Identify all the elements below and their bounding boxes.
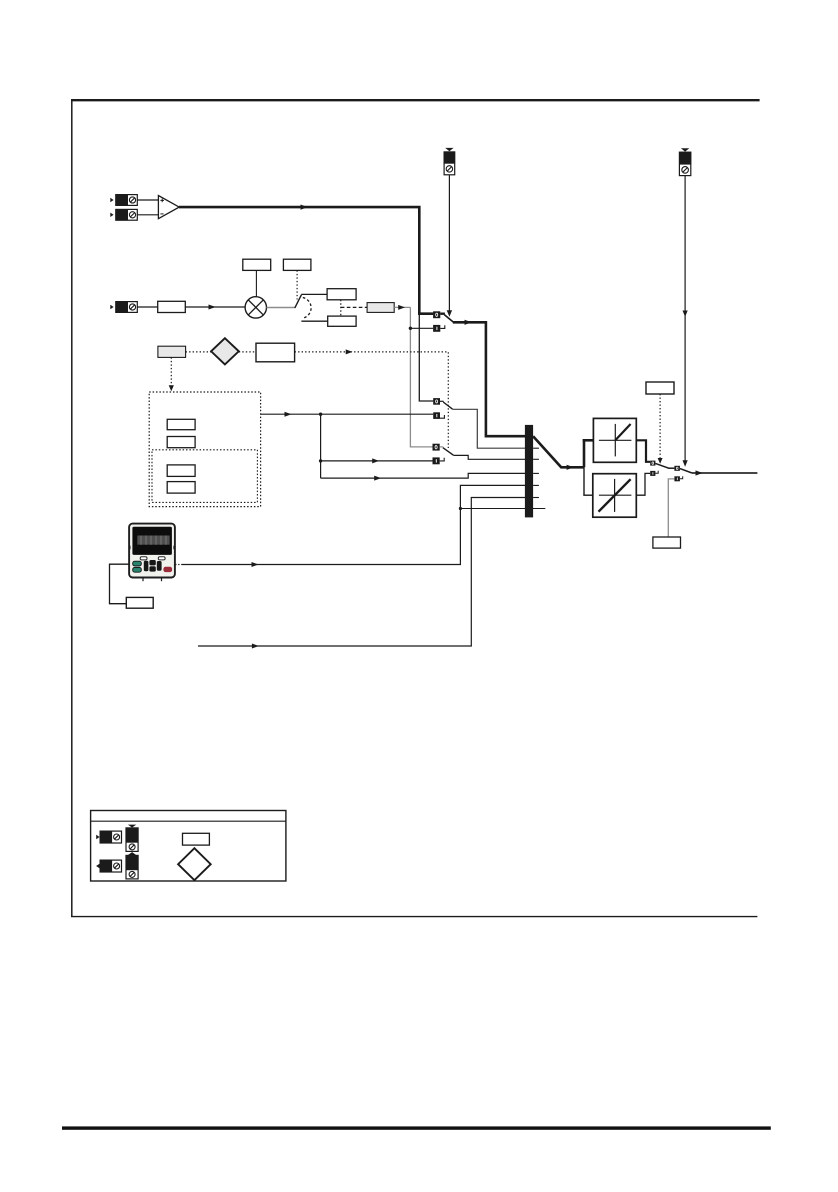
wire continuation down to switch S2 input 0 xyxy=(419,315,433,401)
dotted control wire P3 to selector pivot xyxy=(296,270,298,299)
dotted control wire P7 to switches S2/S3 xyxy=(295,352,449,448)
parameter box P13 xyxy=(653,537,681,548)
gray wire box P13 to SB input 1 xyxy=(668,479,674,537)
control wire from T5 down to switch SB xyxy=(684,176,686,462)
wire function group to switch S2 input 1 xyxy=(261,413,434,415)
parameter box P2 (gain) xyxy=(243,259,271,270)
dashed wire to gray box G1 xyxy=(341,306,367,308)
parameter box P10 xyxy=(167,465,195,477)
thick wire S1 output to bus xyxy=(453,322,525,436)
switch S1 (binector select) xyxy=(433,311,453,332)
diagram frame xyxy=(71,99,760,917)
legend box xyxy=(91,811,286,882)
operator keypad BOP xyxy=(129,524,176,582)
parameter box P9 xyxy=(167,437,195,448)
wire terminal X1 to amp xyxy=(137,199,158,201)
wire S3 output to bus xyxy=(453,455,525,459)
parameter box P11 xyxy=(167,482,195,494)
characteristic block FB2 (linear) xyxy=(593,474,637,518)
switch S2 xyxy=(433,398,452,419)
legend output terminal (horizontal, left arrow) xyxy=(96,860,121,873)
selector switch SEL1 (arc type) xyxy=(295,294,328,321)
parameter box P3 (selector control) xyxy=(283,259,311,270)
wire keypad to box P14 xyxy=(110,564,130,604)
wire FB1 output to switch SA input 0 xyxy=(636,440,650,462)
wire S2 output to bus xyxy=(453,409,525,448)
parameter box P7 xyxy=(256,343,295,362)
gray vertical wire to switch S3 input 0 xyxy=(410,307,433,447)
wire branch to bus xyxy=(321,473,525,478)
wire keypad to bus xyxy=(175,564,182,566)
parameter box P1 (input scaling) xyxy=(158,301,186,312)
wire FB2 output to switch SA input 1 xyxy=(636,473,650,495)
bus bar junction xyxy=(460,508,546,510)
op-amp differential amplifier xyxy=(158,196,179,219)
main output wire to right edge xyxy=(692,472,757,474)
dotted wire G2 down to function group xyxy=(170,357,172,386)
thick wire amp output to switch S1 xyxy=(179,207,433,314)
wire multiplier to selector (gray) xyxy=(267,307,296,309)
wire box P2 to multiplier xyxy=(255,270,257,296)
thick bus output wire to characteristic blocks xyxy=(533,436,584,467)
gray box G2 (source select) xyxy=(158,346,186,357)
decision diamond D1 xyxy=(211,338,239,364)
junction node xyxy=(409,327,412,330)
legend input terminal (vertical, up arrow) xyxy=(126,852,139,879)
terminal X3 (analog input 2) xyxy=(110,301,137,313)
inner dotted sub-box xyxy=(152,450,257,503)
terminal T5 (top right, output) xyxy=(679,148,691,175)
characteristic block FB1 (limit) xyxy=(593,418,636,462)
wire terminal X3 to scaling box xyxy=(137,306,157,308)
switch S3 xyxy=(433,444,454,465)
terminal X2 (analog input -) xyxy=(110,209,137,221)
switch SA xyxy=(650,461,674,476)
wire to switch S3 input 1 xyxy=(321,460,433,462)
switch SB xyxy=(674,466,692,482)
legend parameter box sample xyxy=(183,833,210,845)
terminal T4 (top middle, output) xyxy=(444,148,455,175)
wire G1 output to node xyxy=(394,306,410,308)
gray box G1 (filter) xyxy=(367,303,394,313)
junction node xyxy=(319,413,322,416)
junction node keypad riser xyxy=(459,507,462,510)
branch wire down xyxy=(320,414,322,478)
wire terminal X2 to amp xyxy=(137,214,158,216)
dashed function group box xyxy=(149,392,260,507)
dotted wire G2 to decision diamond xyxy=(186,351,211,353)
multiplier M1 xyxy=(245,297,266,318)
legend input terminal (horizontal) xyxy=(96,831,121,844)
junction node xyxy=(319,459,322,462)
legend diamond sample xyxy=(178,848,211,880)
parameter box P12 (above SA) xyxy=(646,382,674,394)
control wire from top terminal T4 to S1 xyxy=(448,175,450,311)
parameter box P8 xyxy=(167,419,195,429)
wire lower input to bus xyxy=(198,498,525,647)
dotted link between P4 and P5 xyxy=(340,300,342,316)
bus right stubs xyxy=(533,447,539,449)
parameter box P4 (upper choice) xyxy=(327,289,356,300)
terminal X1 (analog input +) xyxy=(110,194,137,206)
input split vertical xyxy=(583,439,586,467)
bottom page rule xyxy=(62,1126,771,1129)
dotted control wire P12 to SA xyxy=(659,394,661,458)
wire node to switch S1 input 1 xyxy=(410,327,433,329)
parameter box P5 (lower choice) xyxy=(328,316,356,326)
parameter box P14 xyxy=(126,597,153,608)
dotted wire diamond to box P7 xyxy=(239,351,256,353)
wire box P1 to multiplier xyxy=(185,306,245,308)
legend output terminal (vertical, down arrow) xyxy=(126,825,139,852)
